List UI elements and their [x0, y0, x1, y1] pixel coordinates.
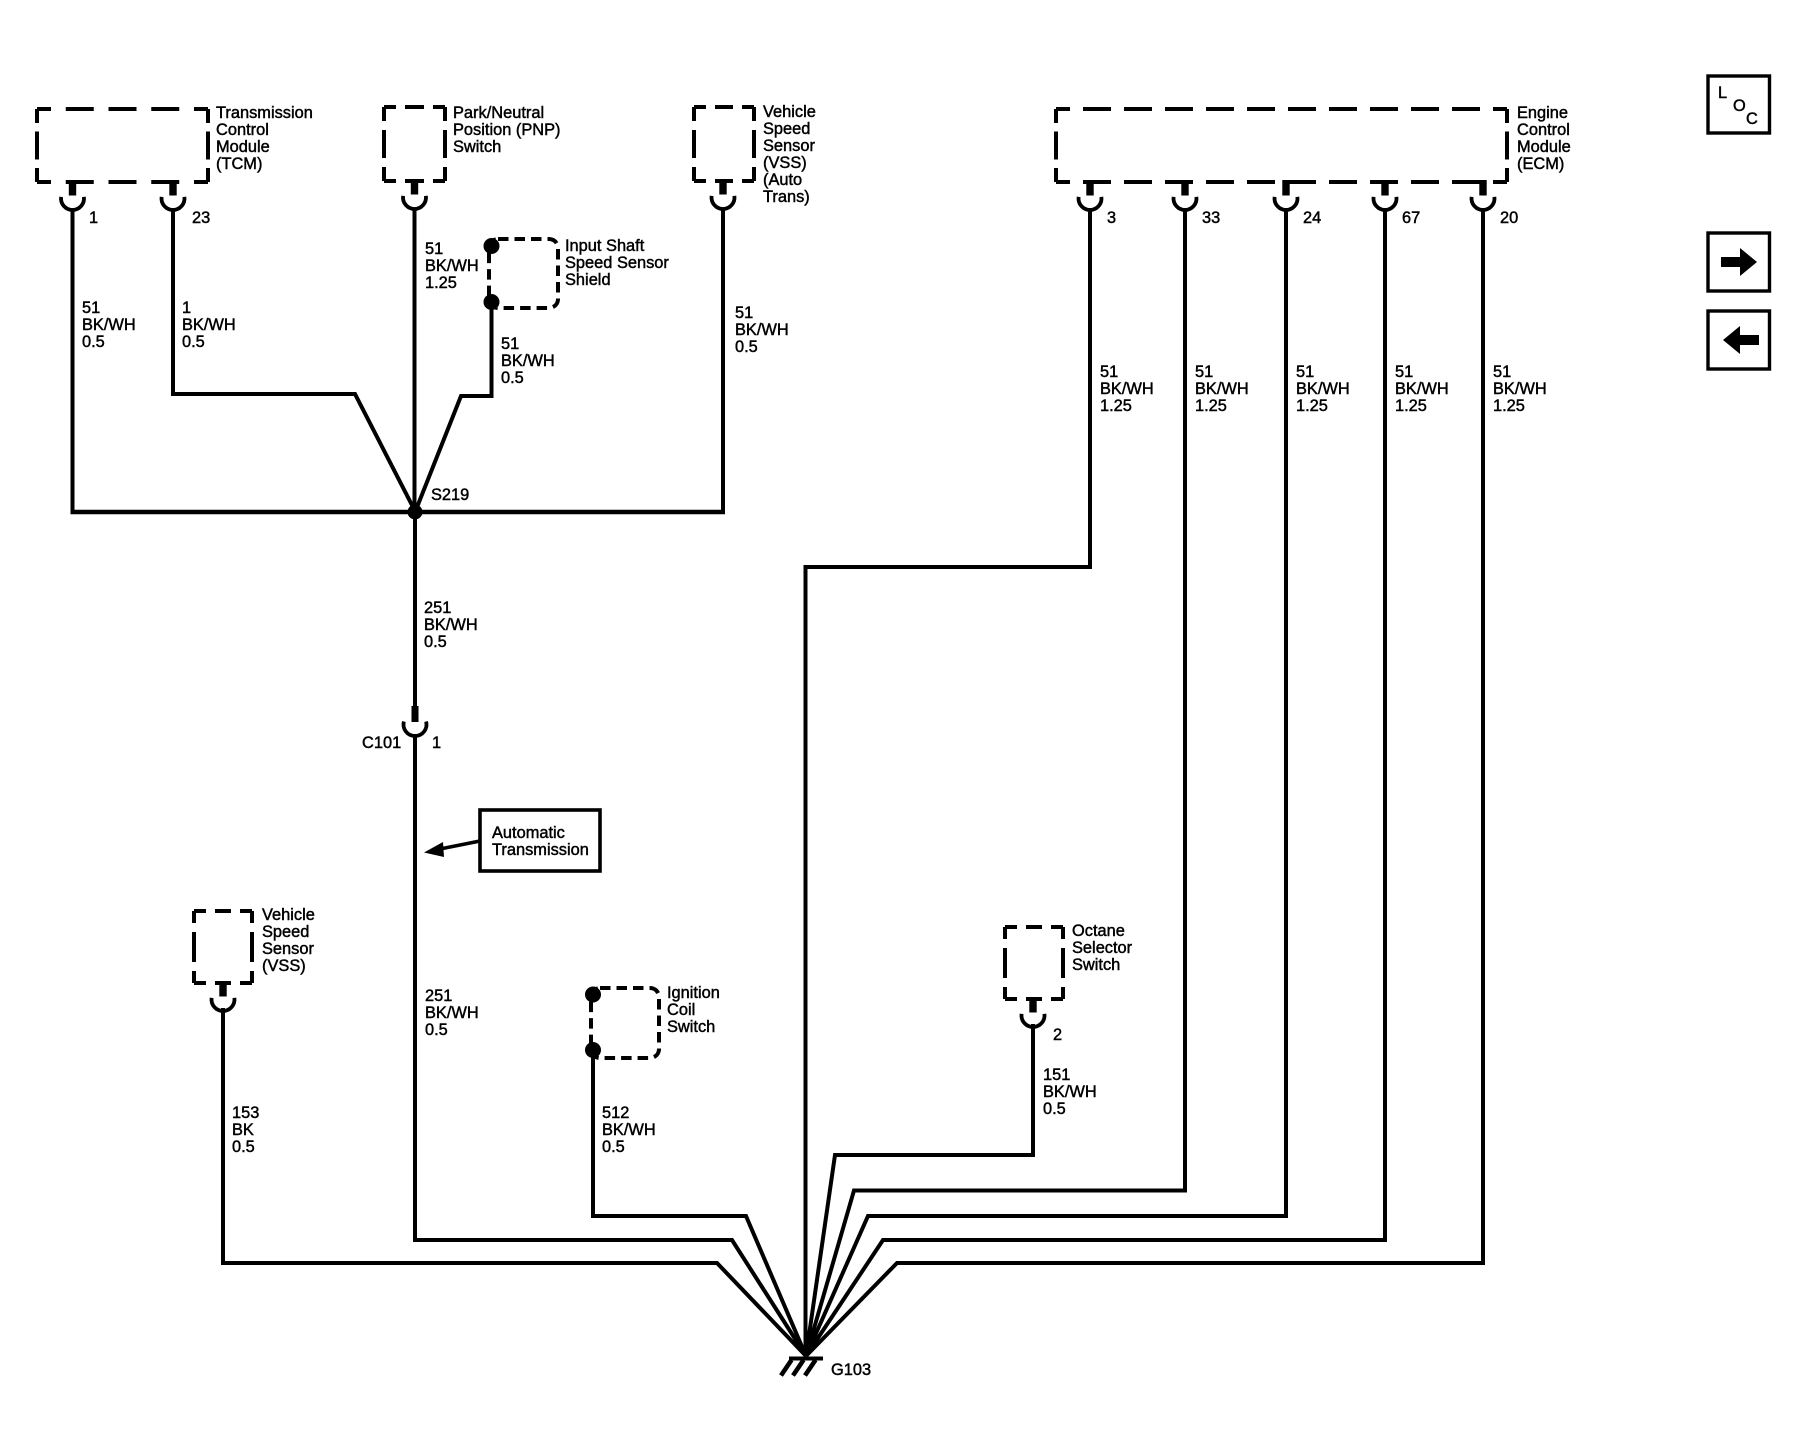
wire bus to S219: [71, 510, 726, 515]
svg-text:0.5: 0.5: [82, 333, 105, 351]
svg-text:51: 51: [1493, 363, 1511, 381]
svg-text:Octane: Octane: [1072, 922, 1125, 940]
junction dot ignition bottom: [585, 1042, 601, 1058]
svg-text:(VSS): (VSS): [262, 957, 306, 975]
pin 2 octane: [1022, 997, 1063, 1044]
label 51 BK/WH 0.5 (shield): [501, 335, 555, 387]
vehicle speed sensor auto trans box: [694, 107, 754, 181]
svg-text:BK/WH: BK/WH: [602, 1121, 656, 1139]
svg-text:20: 20: [1500, 209, 1518, 227]
svg-text:51: 51: [735, 304, 753, 322]
wire 51 BK/WH 1.25 ECM pin 24: [806, 208, 1286, 1356]
svg-text:C101: C101: [362, 734, 401, 752]
svg-text:BK/WH: BK/WH: [1493, 380, 1547, 398]
svg-text:BK/WH: BK/WH: [1296, 380, 1350, 398]
svg-text:BK/WH: BK/WH: [501, 352, 555, 370]
label ignition coil: [667, 984, 720, 1036]
left arrow box: [1708, 311, 1770, 369]
svg-text:51: 51: [1296, 363, 1314, 381]
svg-text:(Auto: (Auto: [763, 171, 802, 189]
svg-text:Coil: Coil: [667, 1001, 695, 1019]
svg-text:1.25: 1.25: [1296, 397, 1328, 415]
svg-text:Switch: Switch: [667, 1018, 715, 1036]
wire 51 BK/WH 1.25 ECM pin 3 to ground: [806, 208, 1091, 1356]
label 151 BK/WH 0.5: [1043, 1066, 1097, 1118]
svg-text:BK/WH: BK/WH: [1043, 1083, 1097, 1101]
svg-text:BK/WH: BK/WH: [1195, 380, 1249, 398]
svg-text:Vehicle: Vehicle: [763, 103, 816, 121]
transmission control module TCM box: [37, 109, 208, 182]
svg-text:BK/WH: BK/WH: [82, 316, 136, 334]
label TCM: [216, 104, 313, 173]
svg-text:Switch: Switch: [1072, 956, 1120, 974]
svg-text:0.5: 0.5: [424, 633, 447, 651]
svg-text:Sensor: Sensor: [763, 137, 815, 155]
svg-text:BK/WH: BK/WH: [1395, 380, 1449, 398]
svg-text:BK/WH: BK/WH: [735, 321, 789, 339]
wire 251 BK/WH 0.5 below C101: [415, 734, 806, 1356]
automatic transmission label box: [480, 810, 600, 871]
svg-text:0.5: 0.5: [425, 1021, 448, 1039]
svg-text:33: 33: [1202, 209, 1220, 227]
pin VSS auto: [712, 179, 735, 209]
svg-text:51: 51: [501, 335, 519, 353]
ground G103: [781, 1359, 871, 1380]
pin 23 TCM: [161, 180, 210, 227]
svg-text:153: 153: [232, 1104, 259, 1122]
svg-text:2: 2: [1053, 1026, 1062, 1044]
junction dot shield top: [484, 238, 500, 254]
octane selector switch box: [1005, 927, 1063, 999]
wire 51 BK/WH 0.5 from VSS auto: [721, 208, 725, 512]
svg-text:L: L: [1718, 84, 1727, 102]
svg-text:Vehicle: Vehicle: [262, 906, 315, 924]
label S219: [431, 486, 469, 504]
pin 67 ECM: [1374, 180, 1421, 227]
svg-text:1: 1: [182, 299, 191, 317]
splice S219: [408, 505, 423, 520]
svg-text:1.25: 1.25: [1493, 397, 1525, 415]
svg-text:151: 151: [1043, 1066, 1070, 1084]
svg-text:Transmission: Transmission: [492, 841, 589, 859]
svg-text:S219: S219: [431, 486, 469, 504]
junction dot shield bottom: [484, 294, 500, 310]
svg-text:Transmission: Transmission: [216, 104, 313, 122]
svg-text:1.25: 1.25: [1100, 397, 1132, 415]
svg-text:0.5: 0.5: [1043, 1100, 1066, 1118]
svg-text:0.5: 0.5: [182, 333, 205, 351]
svg-text:BK/WH: BK/WH: [425, 257, 479, 275]
svg-text:67: 67: [1402, 209, 1420, 227]
wire 251 BK/WH 0.5 to C101: [413, 512, 417, 706]
svg-text:51: 51: [82, 299, 100, 317]
wire 51 BK/WH 0.5 from TCM pin 1: [71, 208, 75, 510]
wire 51 BK/WH 0.5 from shield: [416, 302, 492, 511]
label 51 BK/WH 1.25 (PNP): [425, 240, 479, 292]
pin 33 ECM: [1173, 180, 1220, 227]
svg-text:Trans): Trans): [763, 188, 810, 206]
svg-text:BK/WH: BK/WH: [182, 316, 236, 334]
svg-text:Selector: Selector: [1072, 939, 1133, 957]
svg-text:C: C: [1746, 110, 1758, 128]
svg-text:Control: Control: [1517, 121, 1570, 139]
svg-text:Speed Sensor: Speed Sensor: [565, 254, 669, 272]
input shaft speed sensor shield box: [489, 239, 558, 308]
label ECM: [1517, 104, 1571, 173]
svg-text:Speed: Speed: [763, 120, 810, 138]
svg-text:0.5: 0.5: [735, 338, 758, 356]
svg-text:BK/WH: BK/WH: [425, 1004, 479, 1022]
label 51 BK/WH 1.25 (ECM 2): [1195, 363, 1249, 415]
svg-text:(TCM): (TCM): [216, 155, 262, 173]
svg-text:51: 51: [1395, 363, 1413, 381]
pin 1 TCM: [61, 180, 98, 227]
svg-text:G103: G103: [831, 1361, 871, 1379]
svg-text:24: 24: [1303, 209, 1321, 227]
svg-text:Sensor: Sensor: [262, 940, 314, 958]
svg-text:Module: Module: [216, 138, 270, 156]
svg-text:1: 1: [89, 209, 98, 227]
label 51 BK/WH 0.5 (VSS auto): [735, 304, 789, 356]
pin 3 ECM: [1079, 180, 1117, 227]
park-neutral position switch box: [384, 107, 445, 181]
svg-text:1.25: 1.25: [1395, 397, 1427, 415]
svg-text:Input Shaft: Input Shaft: [565, 237, 645, 255]
label 512 BK/WH 0.5: [602, 1104, 656, 1156]
label input shaft shield: [565, 237, 669, 289]
label 51 BK/WH 0.5 (pin1): [82, 299, 136, 351]
ignition coil switch box: [591, 988, 659, 1058]
pin VSS: [211, 981, 234, 1011]
label 153 BK 0.5: [232, 1104, 259, 1156]
wire 51 BK/WH 1.25 ECM pin 33: [806, 208, 1185, 1356]
label 51 BK/WH 1.25 (ECM 1): [1100, 363, 1154, 415]
svg-text:Switch: Switch: [453, 138, 501, 156]
right arrow box: [1708, 233, 1770, 291]
label 51 BK/WH 1.25 (ECM 4): [1395, 363, 1449, 415]
wire 51 BK/WH 1.25 ECM pin 67: [806, 208, 1385, 1356]
svg-text:0.5: 0.5: [602, 1138, 625, 1156]
svg-text:BK/WH: BK/WH: [1100, 380, 1154, 398]
pin 20 ECM: [1472, 180, 1519, 227]
svg-text:512: 512: [602, 1104, 629, 1122]
svg-text:Engine: Engine: [1517, 104, 1568, 122]
svg-text:Control: Control: [216, 121, 269, 139]
svg-text:(ECM): (ECM): [1517, 155, 1564, 173]
svg-text:Position (PNP): Position (PNP): [453, 121, 560, 139]
svg-text:51: 51: [425, 240, 443, 258]
svg-text:O: O: [1733, 97, 1746, 115]
label octane: [1072, 922, 1133, 974]
wire 1 BK/WH 0.5 from TCM pin 23: [173, 208, 415, 511]
svg-text:1.25: 1.25: [425, 274, 457, 292]
svg-text:Shield: Shield: [565, 271, 611, 289]
LOC reference box: [1708, 76, 1770, 133]
arrow to automatic transmission wire: [424, 841, 480, 857]
svg-text:Module: Module: [1517, 138, 1571, 156]
vehicle speed sensor box: [194, 911, 252, 983]
svg-text:(VSS): (VSS): [763, 154, 807, 172]
svg-text:251: 251: [424, 599, 451, 617]
wire 153 BK 0.5 from VSS: [223, 1008, 806, 1356]
junction dot ignition top: [585, 987, 601, 1003]
pin 24 ECM: [1275, 180, 1322, 227]
engine control module ECM box: [1056, 109, 1507, 182]
label 1 BK/WH 0.5 (pin23): [182, 299, 236, 351]
svg-text:3: 3: [1107, 209, 1116, 227]
wire 51 BK/WH 1.25 from PNP switch: [413, 208, 417, 512]
label PNP: [453, 104, 560, 156]
svg-text:Speed: Speed: [262, 923, 309, 941]
wire 151 BK/WH 0.5 from octane switch: [806, 1024, 1033, 1356]
svg-text:51: 51: [1100, 363, 1118, 381]
connector C101: [362, 706, 441, 752]
label 251 BK/WH 0.5 (lower): [425, 987, 479, 1039]
label 51 BK/WH 1.25 (ECM 5): [1493, 363, 1547, 415]
label 51 BK/WH 1.25 (ECM 3): [1296, 363, 1350, 415]
svg-text:1.25: 1.25: [1195, 397, 1227, 415]
svg-text:Automatic: Automatic: [492, 824, 565, 842]
label 251 BK/WH 0.5 (upper): [424, 599, 478, 651]
svg-text:51: 51: [1195, 363, 1213, 381]
label VSS auto: [763, 103, 816, 206]
label VSS: [262, 906, 315, 975]
svg-text:0.5: 0.5: [232, 1138, 255, 1156]
svg-text:23: 23: [192, 209, 210, 227]
svg-text:251: 251: [425, 987, 452, 1005]
svg-text:BK/WH: BK/WH: [424, 616, 478, 634]
svg-text:0.5: 0.5: [501, 369, 524, 387]
svg-text:1: 1: [432, 734, 441, 752]
svg-text:Ignition: Ignition: [667, 984, 720, 1002]
pin PNP: [403, 179, 426, 209]
svg-text:Park/Neutral: Park/Neutral: [453, 104, 544, 122]
wire 512 BK/WH 0.5 from ignition coil: [593, 1050, 806, 1356]
svg-text:BK: BK: [232, 1121, 254, 1139]
wire 51 BK/WH 1.25 ECM pin 20: [806, 208, 1483, 1356]
